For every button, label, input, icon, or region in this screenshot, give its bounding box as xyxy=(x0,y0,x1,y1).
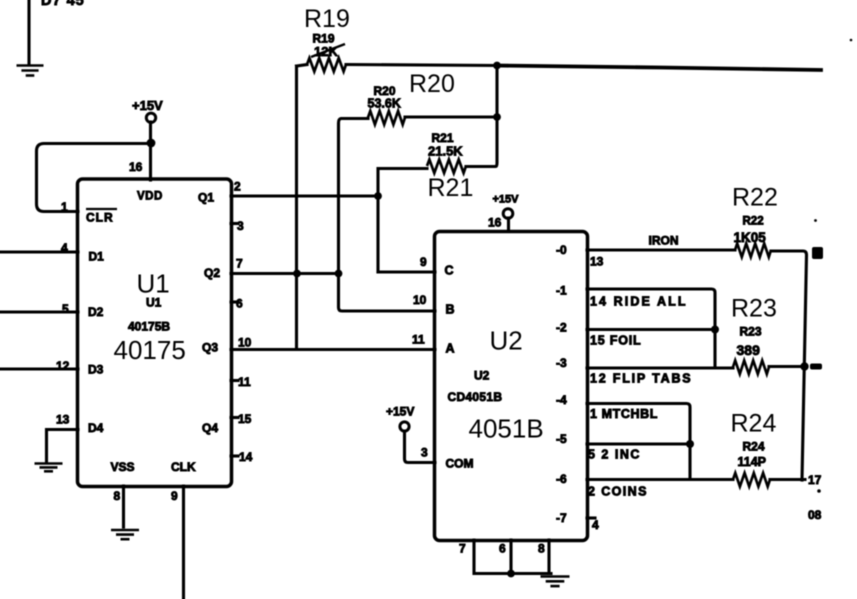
R21 scanned value 21.5K xyxy=(428,144,463,159)
pin label 8 (U2 VSS) xyxy=(538,542,545,556)
svg-text:CLR: CLR xyxy=(86,211,114,225)
wire (U1 pin 13 D4 to ground) xyxy=(47,430,79,462)
pin label 10 (U2 B) xyxy=(413,293,427,307)
pin label U1 pin 7 xyxy=(236,257,243,271)
svg-text:16: 16 xyxy=(129,160,143,174)
svg-text:D3: D3 xyxy=(88,363,104,377)
pin label U1 pin 14 xyxy=(239,450,253,464)
R23 scanned designator xyxy=(740,325,762,339)
svg-text:8: 8 xyxy=(114,489,121,503)
pin label U1 pin 1 xyxy=(61,200,68,214)
signal label 15 FOIL xyxy=(590,334,641,348)
U1 label VDD xyxy=(137,191,163,203)
resistor R24 xyxy=(733,473,770,487)
bus mark (17 near R24 node) xyxy=(808,473,822,493)
U1 pin 14 stub xyxy=(231,454,238,457)
svg-text:5 2 INC: 5 2 INC xyxy=(588,448,641,462)
U2 channel label -7 xyxy=(556,511,567,525)
U2 label COM xyxy=(446,457,474,471)
ground (U1 pin 8) xyxy=(111,530,139,539)
svg-text:D7 45: D7 45 xyxy=(41,0,85,9)
U1 label D3 xyxy=(88,363,104,377)
U1 label Q1 xyxy=(198,191,214,205)
svg-text:10: 10 xyxy=(238,336,252,350)
label R23 (clean) xyxy=(731,295,777,323)
svg-text:U2: U2 xyxy=(490,326,523,356)
svg-text:-2: -2 xyxy=(556,321,567,335)
svg-text:D1: D1 xyxy=(89,250,105,264)
U2 part number 4051B (clean) xyxy=(469,414,544,444)
svg-text:Q1: Q1 xyxy=(198,191,214,205)
signal label 12 FLIP TABS xyxy=(590,372,692,386)
resistor R21 xyxy=(427,160,466,174)
U2 channel label -6 xyxy=(556,472,567,486)
svg-text:VSS: VSS xyxy=(111,460,135,474)
R21 scanned designator xyxy=(432,131,454,145)
svg-text:10: 10 xyxy=(413,293,427,307)
svg-text:114P: 114P xyxy=(738,455,767,469)
svg-text:12 FLIP TABS: 12 FLIP TABS xyxy=(590,372,692,386)
svg-text:13: 13 xyxy=(590,255,604,269)
svg-text:A: A xyxy=(446,342,455,356)
svg-text:21.5K: 21.5K xyxy=(428,144,463,159)
svg-text:U1: U1 xyxy=(146,296,162,310)
wire (U2 pin 8 down to ground) xyxy=(547,540,550,574)
power +15V terminal (U1 supply) xyxy=(132,98,163,123)
U1 pin 15 stub xyxy=(231,416,238,419)
R19 scanned value 12K xyxy=(311,44,345,59)
R20 scanned designator xyxy=(374,84,396,98)
pin label 6 (U2 INH) xyxy=(499,542,506,556)
node (R23 / bus junction) xyxy=(800,362,808,370)
U1 pin 3 stub xyxy=(231,222,238,225)
U2 designator U2 (clean) xyxy=(490,326,523,356)
svg-text:CLK: CLK xyxy=(171,460,196,474)
U1 label D4 xyxy=(88,421,104,435)
U2 scanned designator U2 xyxy=(474,369,490,383)
R24 scanned value 114P xyxy=(738,455,767,469)
pin label 13 xyxy=(590,255,604,269)
node (R20 / bus junction) xyxy=(493,113,501,121)
node (Q2 / R20 leg junction) xyxy=(335,270,343,278)
svg-text:IRON: IRON xyxy=(649,234,679,248)
svg-text:U2: U2 xyxy=(474,369,490,383)
svg-text:R23: R23 xyxy=(740,325,762,339)
svg-text:13: 13 xyxy=(56,413,70,427)
R22 scanned designator xyxy=(743,216,764,228)
svg-text:15: 15 xyxy=(238,412,252,426)
svg-text:-5: -5 xyxy=(556,432,567,446)
resistor R23 xyxy=(733,361,769,375)
node (R19 / top bus junction) xyxy=(493,62,501,70)
svg-text:R22: R22 xyxy=(743,216,764,228)
U1 label VSS xyxy=(111,460,135,474)
svg-text:+15V: +15V xyxy=(132,98,163,113)
ground (U1 pin 13) xyxy=(35,464,63,472)
U1 scanned designator U1 xyxy=(146,296,162,310)
svg-text:11: 11 xyxy=(238,375,251,389)
ground (U2 bottom) xyxy=(541,577,570,587)
svg-text:C: C xyxy=(445,264,454,278)
wire (R19 right lead to bus node) xyxy=(346,65,497,66)
wire (U1 pin 10 Q3 to U2 pin 11 A) xyxy=(231,348,435,351)
svg-text:D4: D4 xyxy=(88,421,104,435)
svg-text:R19: R19 xyxy=(304,5,350,33)
svg-text:1K05: 1K05 xyxy=(734,230,767,245)
pin label U1 pin 2 xyxy=(234,180,241,194)
pin label 4 (U2 ch7) xyxy=(592,518,599,532)
U1 label D2 xyxy=(88,305,104,319)
power +15V terminal (U2 pin 16) xyxy=(493,194,520,219)
pin label U1 pin 4 xyxy=(61,241,68,255)
label R22 (clean) xyxy=(732,184,778,212)
wire (long top feed line going right) xyxy=(497,66,821,71)
svg-text:U1: U1 xyxy=(137,269,170,299)
bus mark (08 below R24 node) xyxy=(808,508,822,522)
svg-text:16: 16 xyxy=(488,216,502,230)
wire (U2 ch4 pin 1 down to ch6 node) xyxy=(587,404,690,480)
wire (U2 ch0 pin 13 to R22) xyxy=(587,248,735,251)
svg-text:12: 12 xyxy=(56,359,70,373)
scan speck (top right) xyxy=(850,39,853,42)
wire (top-left vertical to ground) xyxy=(27,0,30,63)
wire (+15V to U2 pin 16) xyxy=(507,218,510,231)
wire (R22 to right bus) xyxy=(771,251,807,480)
wire (U2 ch3 pin 12 to R23) xyxy=(587,366,733,369)
svg-text:08: 08 xyxy=(808,508,822,522)
svg-text:COM: COM xyxy=(446,457,474,471)
wire (R20 leg down through Q2 to U2 pin 10 B) xyxy=(339,119,436,312)
pin label 16 (U1 VDD pin) xyxy=(129,160,143,174)
wire (U1 pin 8 VSS to ground) xyxy=(122,486,125,527)
ground (top-left) xyxy=(17,66,44,76)
bus mark (blob near R22 node) xyxy=(812,247,823,259)
U1 label CLR (with overline) xyxy=(86,209,117,225)
svg-text:8: 8 xyxy=(538,542,545,556)
wire (U2 pin 6 down) xyxy=(509,540,512,574)
wire (node A up to R21 and down to U2 pin 9 C) xyxy=(378,169,435,273)
U1 designator U1 (clean) xyxy=(137,269,170,299)
svg-text:5: 5 xyxy=(62,302,69,316)
signal label IRON xyxy=(649,234,679,248)
svg-text:14 RIDE ALL: 14 RIDE ALL xyxy=(590,295,688,309)
pin label 7 (U2 VEE) xyxy=(459,542,466,556)
U1 label Q2 xyxy=(204,266,220,280)
U1 label Q4 xyxy=(202,421,218,435)
U2 channel label -0 xyxy=(556,243,567,257)
svg-text:11: 11 xyxy=(412,333,425,347)
U1 label D1 xyxy=(89,250,105,264)
wire (R19 left leg down to Q3 wire) xyxy=(295,66,298,349)
wire (U2 ch2 pin 15 to ch1 line) xyxy=(587,328,715,331)
U1 label Q3 xyxy=(202,341,218,355)
label R19 (clean) xyxy=(304,5,350,33)
U2 ch7 stub xyxy=(587,516,595,519)
svg-text:R21: R21 xyxy=(428,174,474,202)
svg-text:7: 7 xyxy=(236,257,243,271)
U2 channel label -5 xyxy=(556,432,567,446)
R20 scanned value 53.6K xyxy=(368,97,401,111)
svg-text:Q2: Q2 xyxy=(204,266,220,280)
wire (loop from +15V node to U1 pin 1 CLR) xyxy=(37,144,151,212)
wire (R24 to right bus end) xyxy=(770,478,805,481)
svg-text:R24: R24 xyxy=(743,440,765,454)
pin label U1 pin 9 xyxy=(171,489,178,503)
svg-text:B: B xyxy=(446,303,455,317)
svg-text:9: 9 xyxy=(171,489,178,503)
wire (U1 pin 7 Q2 to R20 leg) xyxy=(231,272,339,275)
U1 scanned part number 40175B xyxy=(128,320,170,334)
signal label 2 COINS xyxy=(588,485,648,499)
wire (U2 ch1 pin 14 down to ch3 node) xyxy=(587,289,715,367)
power +15V terminal (U2 COM) xyxy=(386,405,414,432)
pin label 11 (U2 A) xyxy=(412,333,425,347)
pin label U1 pin 13 xyxy=(56,413,70,427)
svg-text:-7: -7 xyxy=(556,511,567,525)
R23 scanned value 389 xyxy=(737,342,761,358)
wire (+15V down to U1 pin 16) xyxy=(149,122,152,180)
svg-text:1: 1 xyxy=(61,200,68,214)
svg-text:+15V: +15V xyxy=(386,405,414,419)
R24 scanned designator xyxy=(743,440,765,454)
signal label 5 2 INC xyxy=(588,448,641,462)
wire (U1 pin 9 CLK line to bottom edge) xyxy=(182,486,185,599)
svg-text:-6: -6 xyxy=(556,472,567,486)
svg-text:R20: R20 xyxy=(409,70,455,98)
svg-text:Q4: Q4 xyxy=(202,421,218,435)
wire (U2 ch6 pin 2 to R24) xyxy=(587,478,733,481)
svg-text:D2: D2 xyxy=(88,305,104,319)
svg-text:3: 3 xyxy=(237,219,244,233)
wire (R21 right lead to bus) xyxy=(466,66,497,167)
svg-text:40175: 40175 xyxy=(114,335,186,365)
label R21 (clean) xyxy=(428,174,474,202)
pin label U1 pin 5 xyxy=(62,302,69,316)
wire (R23 to right bus) xyxy=(769,365,806,368)
scan speck (right bus) xyxy=(814,219,817,222)
U1 label CLK xyxy=(171,460,196,474)
node (junction +15V / CLR loop) xyxy=(147,139,156,148)
pin label U1 pin 8 xyxy=(114,489,121,503)
svg-text:9: 9 xyxy=(420,255,427,269)
svg-text:R22: R22 xyxy=(732,184,778,212)
IC U2 4051B body xyxy=(435,232,588,541)
signal label 14 RIDE ALL xyxy=(590,295,688,309)
svg-text:40175B: 40175B xyxy=(128,320,170,334)
svg-text:7: 7 xyxy=(459,542,466,556)
svg-text:17: 17 xyxy=(808,473,822,487)
text fragment (cut off at top edge) xyxy=(41,0,85,9)
svg-text:4: 4 xyxy=(592,518,599,532)
pin label U1 pin 6 xyxy=(236,297,243,311)
node (ch1/ch2 junction) xyxy=(711,326,719,334)
svg-text:-4: -4 xyxy=(556,393,567,407)
svg-text:-0: -0 xyxy=(556,243,567,257)
U2 scanned part number CD4051B xyxy=(448,390,503,404)
svg-text:2: 2 xyxy=(234,180,241,194)
svg-text:VDD: VDD xyxy=(137,191,163,203)
label R20 (clean) xyxy=(409,70,455,98)
U1 pin 11 stub xyxy=(231,379,238,382)
node A (Q1 junction) xyxy=(374,192,382,200)
svg-text:R23: R23 xyxy=(731,295,777,323)
svg-text:2 COINS: 2 COINS xyxy=(588,485,648,499)
svg-text:3: 3 xyxy=(421,446,428,460)
label R24 (clean) xyxy=(731,410,777,438)
pin label 3 (U2 COM) xyxy=(421,446,428,460)
U1 part number 40175 (clean) xyxy=(114,335,186,365)
U2 label C xyxy=(445,264,454,278)
svg-text:R24: R24 xyxy=(731,410,777,438)
svg-text:6: 6 xyxy=(499,542,506,556)
node (ch4/ch5 junction) xyxy=(686,440,694,448)
pin label 9 (U2 C) xyxy=(420,255,427,269)
resistor R22 xyxy=(735,244,771,258)
wire (R20 right lead to bus) xyxy=(405,115,497,118)
resistor R19 xyxy=(297,58,347,72)
U2 channel label -4 xyxy=(556,393,567,407)
wire (D1 input to U1 pin 4) xyxy=(0,250,78,253)
svg-text:14: 14 xyxy=(239,450,253,464)
pin label U1 pin 10 xyxy=(238,336,252,350)
wire (D3 input to U1 pin 12) xyxy=(0,367,78,370)
svg-text:4051B: 4051B xyxy=(469,414,544,444)
svg-text:+15V: +15V xyxy=(493,194,520,206)
U2 label A xyxy=(446,342,455,356)
resistor R20 xyxy=(368,111,405,125)
R19 scanned designator xyxy=(313,32,335,46)
wire (U1 pin 2 Q1 to node A) xyxy=(231,194,378,197)
svg-text:53.6K: 53.6K xyxy=(368,97,401,111)
IC U1 40175 body xyxy=(78,179,232,487)
wire (U2 ch5 pin 5 to ch4 line) xyxy=(587,442,690,445)
pin label 16 (U2) xyxy=(488,216,502,230)
svg-text:15 FOIL: 15 FOIL xyxy=(590,334,641,348)
node (Q2 / R19 leg junction) xyxy=(293,270,301,278)
bus mark (dash near R23 node) xyxy=(810,364,822,370)
svg-text:-1: -1 xyxy=(556,284,567,298)
svg-text:CD4051B: CD4051B xyxy=(448,390,503,404)
U2 channel label -1 xyxy=(556,284,567,298)
pin label U1 pin 12 xyxy=(56,359,70,373)
wire (D2 input to U1 pin 5) xyxy=(0,310,78,313)
signal label 1 MTCHBL xyxy=(590,407,658,421)
U2 channel label -3 xyxy=(556,356,567,370)
pin label U1 pin 15 xyxy=(238,412,252,426)
svg-text:1 MTCHBL: 1 MTCHBL xyxy=(590,407,658,421)
R22 scanned value 1K05 xyxy=(734,230,767,245)
U2 channel label -2 xyxy=(556,321,567,335)
wire (U2 pin 7 to ground rail) xyxy=(474,540,551,574)
U2 label B xyxy=(446,303,455,317)
pin label U1 pin 3 xyxy=(237,219,244,233)
pin label U1 pin 11 xyxy=(238,375,251,389)
svg-text:389: 389 xyxy=(737,342,761,358)
wire (+15V to U2 pin 3 COM) xyxy=(405,431,436,463)
node (pin 6 / ground rail) xyxy=(507,570,515,578)
svg-text:Q3: Q3 xyxy=(202,341,218,355)
svg-text:-3: -3 xyxy=(556,356,567,370)
U1 pin 6 stub xyxy=(231,300,238,303)
